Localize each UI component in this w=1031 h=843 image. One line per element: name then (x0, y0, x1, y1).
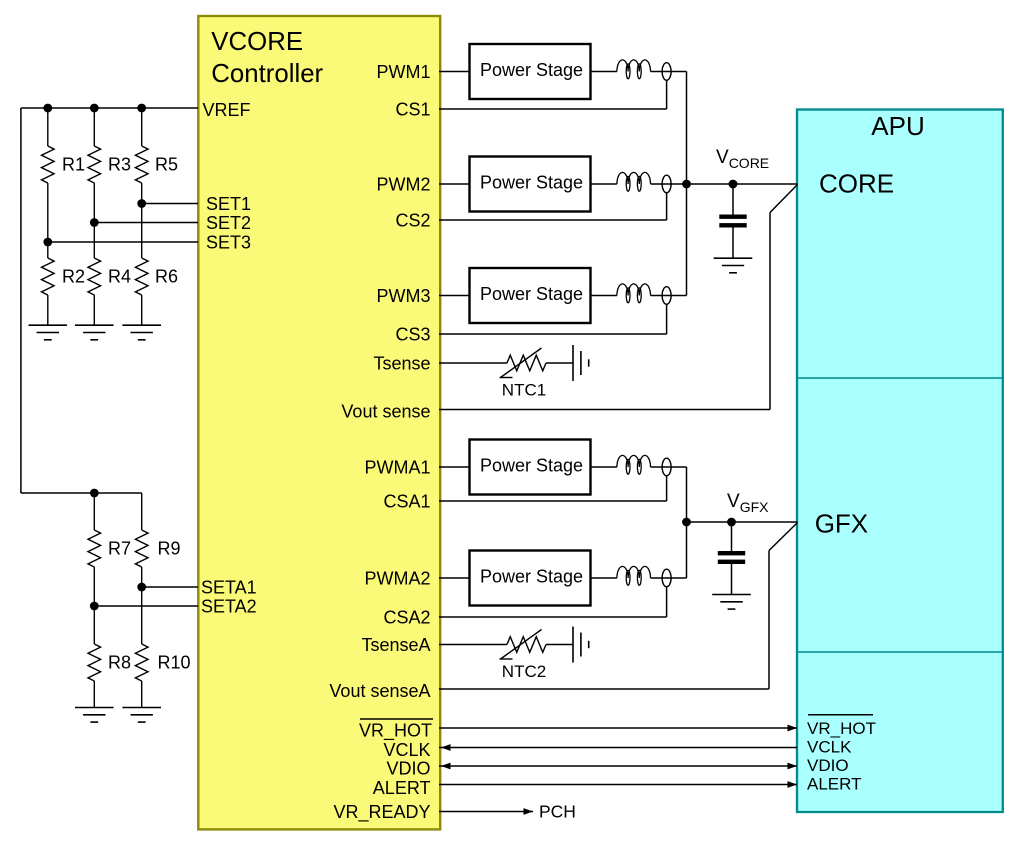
svg-text:VCORE: VCORE (211, 28, 303, 56)
svg-text:R9: R9 (158, 538, 181, 558)
svg-text:Power Stage: Power Stage (480, 284, 583, 304)
svg-text:R5: R5 (155, 154, 178, 174)
svg-text:VR_HOT: VR_HOT (807, 719, 876, 738)
svg-text:R6: R6 (155, 266, 178, 286)
svg-text:VCLK: VCLK (383, 740, 430, 760)
svg-text:NTC1: NTC1 (502, 380, 546, 399)
svg-text:SETA2: SETA2 (201, 597, 257, 617)
svg-text:CSA1: CSA1 (383, 491, 430, 511)
svg-text:Power Stage: Power Stage (480, 567, 583, 587)
svg-text:Tsense: Tsense (373, 353, 430, 373)
svg-text:SETA1: SETA1 (201, 578, 257, 598)
svg-text:TsenseA: TsenseA (361, 635, 430, 655)
svg-text:ALERT: ALERT (807, 775, 862, 794)
svg-text:R4: R4 (108, 266, 131, 286)
svg-text:PWM3: PWM3 (377, 286, 431, 306)
svg-text:VCLK: VCLK (807, 737, 852, 756)
svg-text:SET3: SET3 (206, 232, 251, 252)
svg-text:PWMA1: PWMA1 (364, 457, 430, 477)
svg-text:VR_HOT: VR_HOT (359, 721, 432, 742)
svg-text:Power Stage: Power Stage (480, 60, 583, 80)
svg-text:R2: R2 (62, 266, 85, 286)
svg-text:Power Stage: Power Stage (480, 173, 583, 193)
svg-text:R3: R3 (108, 154, 131, 174)
svg-text:CS1: CS1 (395, 99, 430, 119)
svg-text:ALERT: ALERT (373, 778, 431, 798)
svg-text:GFX: GFX (815, 509, 868, 539)
svg-text:R7: R7 (108, 538, 131, 558)
svg-text:VREF: VREF (203, 100, 251, 120)
svg-text:Power Stage: Power Stage (480, 456, 583, 476)
svg-text:NTC2: NTC2 (502, 662, 546, 681)
svg-text:R10: R10 (158, 652, 191, 672)
svg-text:SET1: SET1 (206, 194, 251, 214)
svg-text:CSA2: CSA2 (383, 607, 430, 627)
svg-text:Controller: Controller (211, 60, 323, 88)
svg-text:PCH: PCH (539, 802, 576, 822)
svg-text:PWM2: PWM2 (377, 174, 431, 194)
svg-text:PWMA2: PWMA2 (364, 568, 430, 588)
svg-text:VDIO: VDIO (386, 758, 430, 778)
svg-text:CS2: CS2 (395, 210, 430, 230)
svg-text:Vout senseA: Vout senseA (329, 681, 430, 701)
svg-text:PWM1: PWM1 (377, 62, 431, 82)
svg-text:CS3: CS3 (395, 324, 430, 344)
svg-text:R8: R8 (108, 652, 131, 672)
svg-text:APU: APU (871, 111, 924, 141)
svg-text:Vout sense: Vout sense (341, 401, 430, 421)
svg-text:R1: R1 (62, 154, 85, 174)
svg-text:CORE: CORE (819, 169, 894, 199)
svg-text:SET2: SET2 (206, 213, 251, 233)
svg-text:VR_READY: VR_READY (333, 802, 430, 823)
svg-text:VDIO: VDIO (807, 756, 849, 775)
